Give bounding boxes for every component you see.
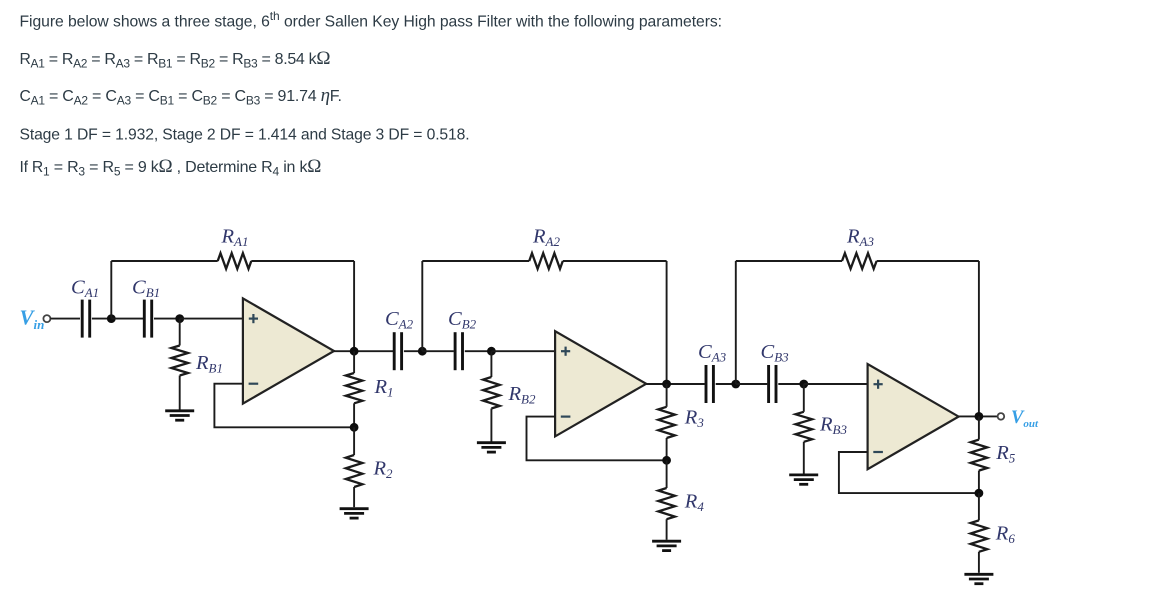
node J [799,380,808,389]
resistor RB1 [171,319,188,410]
wire [959,415,998,417]
capacitor CB3 [769,365,776,403]
svg-text:Vin: Vin [20,306,45,333]
svg-text:RA1: RA1 [221,226,249,250]
wire [421,261,423,351]
node B [175,314,184,323]
wire (negative feedback U2) [527,417,667,461]
ground [652,541,681,550]
svg-text:CA1 = CA2 = CA3 = CB1 = CB2 =: CA1 = CA2 = CA3 = CB1 = CB2 = CB3 = 91.7… [20,85,342,108]
ground [789,475,818,484]
wire (negative feedback U3) [839,452,979,493]
resistor R6 [971,493,988,573]
wire [180,318,243,320]
wire [716,383,736,385]
svg-text:CB2: CB2 [448,308,477,332]
wire [422,350,454,352]
node H [662,456,671,465]
terminal Vin [43,315,50,322]
wire [735,261,737,384]
svg-text:CA1: CA1 [71,277,99,301]
capacitor CA2 [394,332,401,370]
wire [334,350,393,352]
node C [350,347,359,356]
svg-text:R6: R6 [995,523,1016,547]
resistor R5 [971,416,988,493]
svg-text:Vout: Vout [1011,408,1039,430]
wire [465,350,492,352]
wire [422,260,529,262]
resistor R2 [346,427,363,507]
svg-text:RA2: RA2 [532,226,560,250]
wire [978,261,980,416]
op-amp U2 [555,331,646,436]
wire [646,383,705,385]
svg-text:CA2: CA2 [385,308,414,332]
svg-text:CA3: CA3 [698,341,727,365]
node I [731,380,740,389]
wire [736,383,768,385]
resistor RB2 [483,351,500,441]
wire [877,260,979,262]
resistor RA3 [842,253,877,269]
svg-text:R3: R3 [684,406,705,430]
wire [804,383,868,385]
node L [975,489,984,498]
op-amp U1 [243,298,334,403]
node A [107,314,116,323]
wire [251,260,354,262]
wire [353,261,355,351]
node F [487,347,496,356]
svg-text:Figure below shows a three sta: Figure below shows a three stage, 6th or… [20,9,723,31]
resistor R1 [346,351,363,427]
svg-text:CB1: CB1 [132,277,160,301]
svg-text:If R1 = R3 = R5 = 9 kΩ , Deter: If R1 = R3 = R5 = 9 kΩ , Determine R4 in… [20,156,322,179]
svg-text:CB3: CB3 [761,341,790,365]
wire [404,350,422,352]
node G [662,380,671,389]
svg-text:RB2: RB2 [508,383,536,407]
wire [736,260,842,262]
svg-text:RB3: RB3 [819,414,847,438]
capacitor CA3 [706,365,713,403]
capacitor CB2 [455,332,462,370]
svg-text:R2: R2 [373,457,394,481]
wire [111,318,143,320]
svg-text:R1: R1 [374,376,394,400]
ground [477,443,506,452]
ground [964,574,993,583]
ground [340,509,369,518]
svg-text:R4: R4 [684,491,705,514]
wire [778,383,804,385]
resistor RA2 [529,253,563,269]
resistor R4 [658,460,675,540]
ground [165,411,194,420]
resistor RB3 [796,384,813,474]
capacitor CB1 [144,300,151,338]
wire [563,260,667,262]
wire [110,261,112,319]
wire [491,350,555,352]
wire [154,318,180,320]
wire [666,261,668,384]
svg-text:RA1 = RA2 = RA3 = RB1 = RB2 =: RA1 = RA2 = RA3 = RB1 = RB2 = RB3 = 8.54… [20,48,331,71]
capacitor CA1 [82,300,90,338]
svg-text:RA3: RA3 [846,226,874,250]
op-amp U3 [868,364,959,469]
resistor R3 [658,384,675,460]
svg-text:R5: R5 [995,442,1016,466]
node E [418,347,427,356]
wire (negative feedback U1) [214,384,354,428]
svg-text:Stage 1 DF = 1.932, Stage 2 DF: Stage 1 DF = 1.932, Stage 2 DF = 1.414 a… [20,126,470,143]
node K [975,412,984,421]
wire [50,318,80,320]
wire [111,260,217,262]
terminal Vout [998,413,1005,420]
wire [92,318,111,320]
node D [350,423,359,432]
resistor RA1 [218,253,252,269]
svg-text:RB1: RB1 [195,352,223,376]
